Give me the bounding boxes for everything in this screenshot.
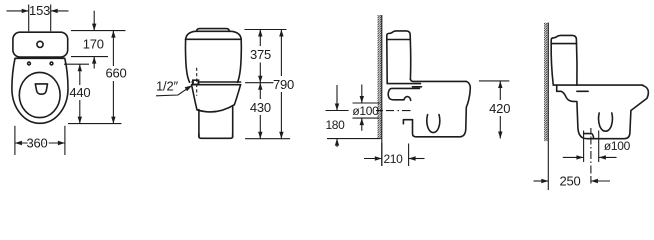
svg-text:420: 420 [489,101,510,116]
o100 top arrow [361,85,363,104]
tank lid (side) [387,31,411,40]
tank seam (view 4) [551,43,576,45]
svg-text:1/2″: 1/2″ [156,78,178,93]
wall line [381,15,383,166]
dim 170 bottom arrow [93,57,95,69]
wall line (view 4) [547,23,549,190]
dim 180 bottom arrow [336,139,338,147]
outlet centerline dash-dot (view 4) [590,128,592,184]
seat inner ring [19,72,60,117]
dim 430 line upper [259,83,261,99]
dim 153 left arrowhead [22,9,29,13]
wall hatching [378,15,382,139]
dim 440 line upper [79,64,81,85]
svg-text:440: 440 [69,85,90,100]
dim 375 line lower [259,63,261,83]
pedestal bottom [199,134,233,138]
o100 bottom arrow [361,118,363,131]
seat slab bottom line [192,84,241,86]
tank left edge (view 4) [551,44,553,85]
dim 360 line [15,142,65,144]
tank bottom extension line [71,56,108,58]
dim 420 line lower [499,116,501,139]
dim 660 line lower [112,81,114,124]
svg-text:660: 660 [105,66,126,81]
o100 left arrow (view 4) [563,156,584,158]
dim 790 line lower [280,92,282,139]
pedestal left side [198,110,200,138]
dim 153 right arrow tail [51,10,69,12]
svg-text:210: 210 [383,152,403,166]
lid cap [197,29,230,32]
outlet centerline dash-dot [376,110,411,112]
dim 210 right arrow [409,158,425,160]
back ramp, foot bottom and front outline [557,86,649,139]
svg-text:430: 430 [250,100,271,115]
outlet spigot profile [388,88,419,100]
tank dome outline [186,31,242,39]
dim 210 left arrow [364,158,382,160]
dim 660 line upper [112,31,114,66]
floor line left of wall [327,138,381,140]
deck / seat top line [410,79,466,81]
outlet hub line [584,134,594,139]
dim 153 extension line left [28,5,30,32]
deck / seat top line (view 4) [553,84,643,86]
dim 360 extension line left [14,126,16,155]
pedestal right side [232,106,234,138]
svg-text:375: 375 [250,47,271,62]
dim 250 left arrow [534,180,549,182]
cistern tank (plan) [13,32,68,57]
dim 360 extension line right [64,126,66,155]
svg-text:170: 170 [83,37,104,52]
svg-text:153: 153 [29,3,50,18]
bowl bottom extension line [68,123,121,125]
trap U symbol [427,115,440,133]
bowl front and foot outline [413,81,471,136]
1/2 inch leader arrowhead [185,85,193,91]
dim 210 right extension line [408,144,410,167]
seat hinge dot left [28,62,31,65]
tank left edge (side) [386,40,388,84]
tank seam line [186,38,242,40]
dim 790 line upper [280,30,282,77]
dim 180 top arrow [336,85,338,111]
seat slab top line [192,81,241,83]
tank seam (side) [387,39,411,41]
seat bottom segment (view 4) [577,90,588,92]
svg-text:250: 250 [559,174,580,189]
svg-text:ø100: ø100 [352,104,379,118]
dim 153 right arrowhead [51,9,58,13]
bowl outer outline [12,58,68,123]
dim 153 left arrow tail [7,10,29,12]
wall hatching (view 4) [544,23,548,142]
flush button [37,41,43,47]
seat level extension line [245,82,273,84]
outlet pipe left edge [583,131,585,163]
seat bottom stub [413,86,422,88]
outlet pipe right edge [598,131,600,163]
1/2 inch leader line [156,87,190,96]
dim 440 line lower [79,100,81,124]
outlet centerline solid left piece [326,110,349,112]
dim 375 line upper [259,30,261,47]
seat hinge dot right [50,62,53,65]
o100 bottom tick [353,117,380,119]
tank top extension line [71,30,126,32]
lid top extension line [245,29,287,31]
tank lid (view 4) [551,35,576,43]
svg-text:ø100: ø100 [604,139,631,153]
svg-text:360: 360 [26,136,47,151]
tank right side [238,39,242,82]
svg-text:790: 790 [273,77,294,92]
dim 170 top arrow [93,11,95,31]
seat level extension line (420) [479,80,509,82]
svg-text:180: 180 [325,118,345,132]
dim 210 left extension line [381,143,383,166]
water spot [35,84,47,94]
trap U symbol (view 4) [599,113,613,131]
hinge extension line [64,63,89,65]
o100 top tick [353,102,380,104]
o100 right arrow (view 4) [599,156,617,158]
bowl bottom arc [197,105,234,112]
inlet axis dashed line [196,68,198,96]
dim 153 extension line right [50,5,52,32]
foot inlet step [403,120,412,124]
dim 430 line lower [259,115,261,139]
tank right edge (side) [409,40,411,80]
tank right edge (view 4) [576,44,579,86]
tank bottom line [387,83,420,85]
dim 250 right arrow [591,180,610,182]
dim 420 line upper [499,81,501,100]
bowl right under seat [234,85,240,105]
inlet fitting square [192,79,199,85]
tank left side [185,39,189,82]
bowl left under seat [192,85,198,110]
floor extension line [245,138,290,140]
